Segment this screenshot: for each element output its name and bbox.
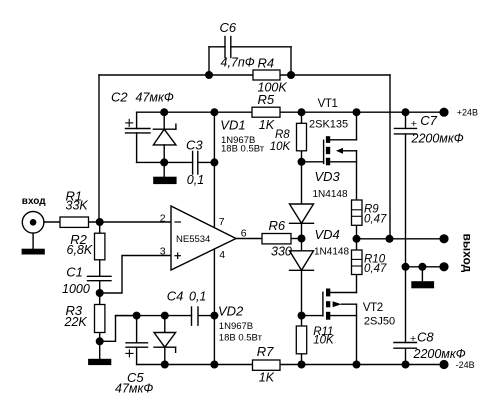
svg-text:R7: R7 [257, 344, 274, 359]
svg-text:0,47: 0,47 [364, 213, 387, 225]
svg-text:10K: 10K [270, 141, 292, 153]
svg-text:C4: C4 [167, 288, 184, 303]
svg-text:18В 0.5Вт: 18В 0.5Вт [221, 144, 265, 155]
svg-text:VD2: VD2 [218, 304, 244, 319]
svg-text:VT2: VT2 [363, 302, 383, 314]
svg-text:вход: вход [22, 196, 46, 207]
svg-text:47мкФ: 47мкФ [115, 382, 153, 396]
svg-text:3: 3 [160, 245, 166, 257]
svg-text:0,1: 0,1 [189, 289, 206, 303]
svg-text:2: 2 [160, 212, 166, 224]
svg-text:330: 330 [271, 245, 292, 259]
svg-text:R5: R5 [258, 92, 275, 107]
svg-text:-24В: -24В [456, 360, 475, 370]
svg-text:47мкФ: 47мкФ [136, 91, 174, 105]
svg-text:C3: C3 [186, 137, 203, 152]
svg-text:VD4: VD4 [315, 227, 340, 242]
svg-text:2200мкФ: 2200мкФ [411, 132, 464, 146]
svg-text:18В 0.5Вт: 18В 0.5Вт [219, 332, 263, 343]
svg-text:1K: 1K [259, 118, 275, 132]
svg-text:1K: 1K [259, 371, 275, 385]
svg-text:выход: выход [461, 234, 475, 273]
svg-text:VD3: VD3 [315, 169, 341, 184]
svg-text:1N4148: 1N4148 [314, 246, 349, 257]
svg-text:6,8K: 6,8K [67, 243, 93, 257]
svg-text:+24В: +24В [457, 108, 478, 118]
svg-text:4,7пФ: 4,7пФ [221, 56, 255, 70]
svg-text:+: + [411, 118, 417, 130]
svg-text:2SK135: 2SK135 [309, 118, 348, 130]
svg-text:C1: C1 [66, 265, 83, 280]
svg-text:0,47: 0,47 [364, 263, 387, 275]
svg-text:1N4148: 1N4148 [313, 189, 348, 200]
svg-text:6: 6 [241, 228, 247, 240]
svg-text:C8: C8 [417, 330, 434, 345]
svg-text:VD1: VD1 [220, 117, 245, 132]
svg-text:7: 7 [219, 216, 225, 228]
svg-text:22K: 22K [64, 315, 88, 329]
svg-text:VT1: VT1 [318, 98, 338, 110]
svg-text:0,1: 0,1 [187, 173, 204, 187]
svg-text:R8: R8 [275, 129, 290, 141]
svg-text:+: + [410, 333, 416, 345]
svg-text:4: 4 [219, 249, 225, 261]
svg-text:R4: R4 [258, 55, 275, 70]
svg-text:C6: C6 [220, 20, 237, 35]
svg-text:1000: 1000 [62, 282, 90, 296]
svg-text:33K: 33K [66, 199, 89, 213]
svg-text:NE5534: NE5534 [176, 234, 210, 245]
svg-text:10K: 10K [313, 335, 335, 347]
svg-text:R6: R6 [269, 218, 286, 233]
svg-text:C2: C2 [111, 90, 128, 105]
svg-text:2SJ50: 2SJ50 [364, 316, 395, 328]
svg-text:1N967B: 1N967B [219, 321, 253, 332]
svg-text:C7: C7 [420, 113, 437, 128]
